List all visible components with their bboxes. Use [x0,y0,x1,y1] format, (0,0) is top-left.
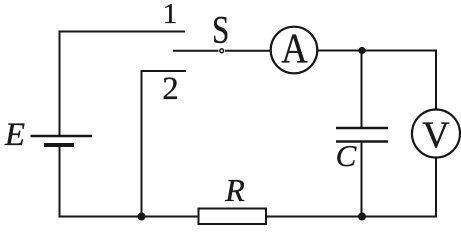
resistor R [199,209,267,225]
wire: bottom horizontal right segment [266,216,437,218]
battery E [31,136,93,145]
wire: bottom horizontal left segment [59,216,199,218]
svg-text:S: S [212,8,229,51]
wire: ammeter to right corner [317,50,437,52]
wire: right vertical upper to voltmeter [435,50,437,111]
node 2 (switch contact 2): horizontal stub [141,70,187,72]
wire: capacitor branch vertical upper [361,51,363,129]
voltmeter V [412,110,460,158]
svg-text:1: 1 [163,0,178,30]
wire: left vertical from battery down to bottom wire [59,145,61,217]
wire: contact-2 vertical down to bottom wire [141,70,143,216]
svg-text:2: 2 [162,71,179,107]
switch S pole wire (left of knife circle) [173,50,218,52]
wire: switch to ammeter [225,50,271,52]
svg-text:E: E [4,117,25,153]
wire: capacitor branch vertical lower [361,142,363,218]
svg-text:C: C [336,138,357,173]
svg-text:A: A [281,25,308,72]
wire: left vertical from top corner down to battery [59,31,61,137]
svg-text:V: V [422,115,450,157]
node: junction dot top (capacitor branch tap) [358,47,365,54]
svg-text:R: R [224,172,245,208]
node: junction dot (contact-2 branch to bottom wire) [138,213,146,221]
wire: top left horizontal to switch contact 1 [59,31,186,33]
switch S pivot circle [220,49,224,53]
wire: right vertical lower from voltmeter to bottom corner [435,158,437,218]
ammeter A [271,25,318,73]
capacitor C plates [336,128,388,142]
node: junction dot bottom (capacitor branch to bottom wire) [358,213,366,221]
